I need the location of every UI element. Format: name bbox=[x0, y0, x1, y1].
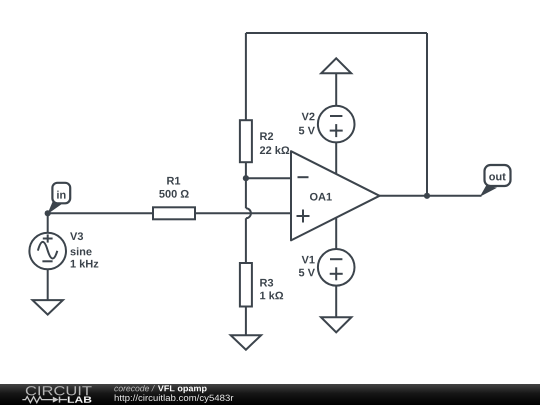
voltage source V1 bbox=[299, 249, 355, 286]
node input junction bbox=[45, 210, 51, 216]
node output feedback junction bbox=[424, 193, 430, 199]
footer title line bbox=[114, 385, 155, 391]
wire hop over input row bbox=[246, 208, 251, 218]
wire V3 top bbox=[47, 213, 49, 235]
wire V1 bottom to ground bbox=[335, 284, 337, 317]
wire junction down to hop bbox=[245, 178, 247, 208]
ground (R3) bbox=[231, 335, 261, 350]
voltage source V2 bbox=[299, 106, 355, 143]
wire feedback left vertical (top of R2 up) bbox=[245, 33, 247, 120]
wire R2 bottom to junction bbox=[245, 162, 247, 178]
resistor R3 bbox=[240, 263, 283, 307]
power arrow (V2 supply) bbox=[321, 58, 351, 73]
voltage source V3 (sine) bbox=[29, 232, 98, 269]
resistor R2 bbox=[240, 120, 289, 162]
logo LAB bbox=[68, 397, 92, 403]
node flag "in" bbox=[47, 183, 70, 215]
footer url line bbox=[115, 394, 234, 402]
node inverting input junction bbox=[243, 175, 249, 181]
wire junction to op-amp - input bbox=[246, 177, 291, 179]
wire input row right: R1 to op-amp + input bbox=[195, 212, 291, 214]
wire op-amp bottom power pin to V1 bbox=[335, 212, 337, 251]
wire input row left: node to R1 bbox=[48, 212, 153, 214]
wire feedback right vertical bbox=[426, 33, 428, 196]
ground (V3) bbox=[33, 300, 63, 315]
CircuitLab logo wordmark bbox=[26, 386, 92, 395]
wire V2 arrow to circle bbox=[335, 73, 337, 108]
wire V2 to op-amp top power pin bbox=[335, 140, 337, 180]
wire op-amp output row bbox=[380, 195, 482, 197]
wire feedback top horizontal bbox=[246, 32, 427, 34]
wire R3 bottom to ground bbox=[245, 307, 247, 336]
wire hop to R3 bbox=[245, 218, 247, 263]
wire V3 bottom to ground bbox=[47, 267, 49, 300]
op-amp OA1 bbox=[291, 151, 380, 240]
ground (V1) bbox=[321, 317, 351, 332]
footer bar bbox=[0, 384, 540, 405]
node flag "out" bbox=[480, 165, 511, 197]
resistor R1 bbox=[153, 177, 195, 219]
logo resistor squiggle bbox=[22, 397, 52, 403]
logo diode bbox=[53, 397, 59, 403]
